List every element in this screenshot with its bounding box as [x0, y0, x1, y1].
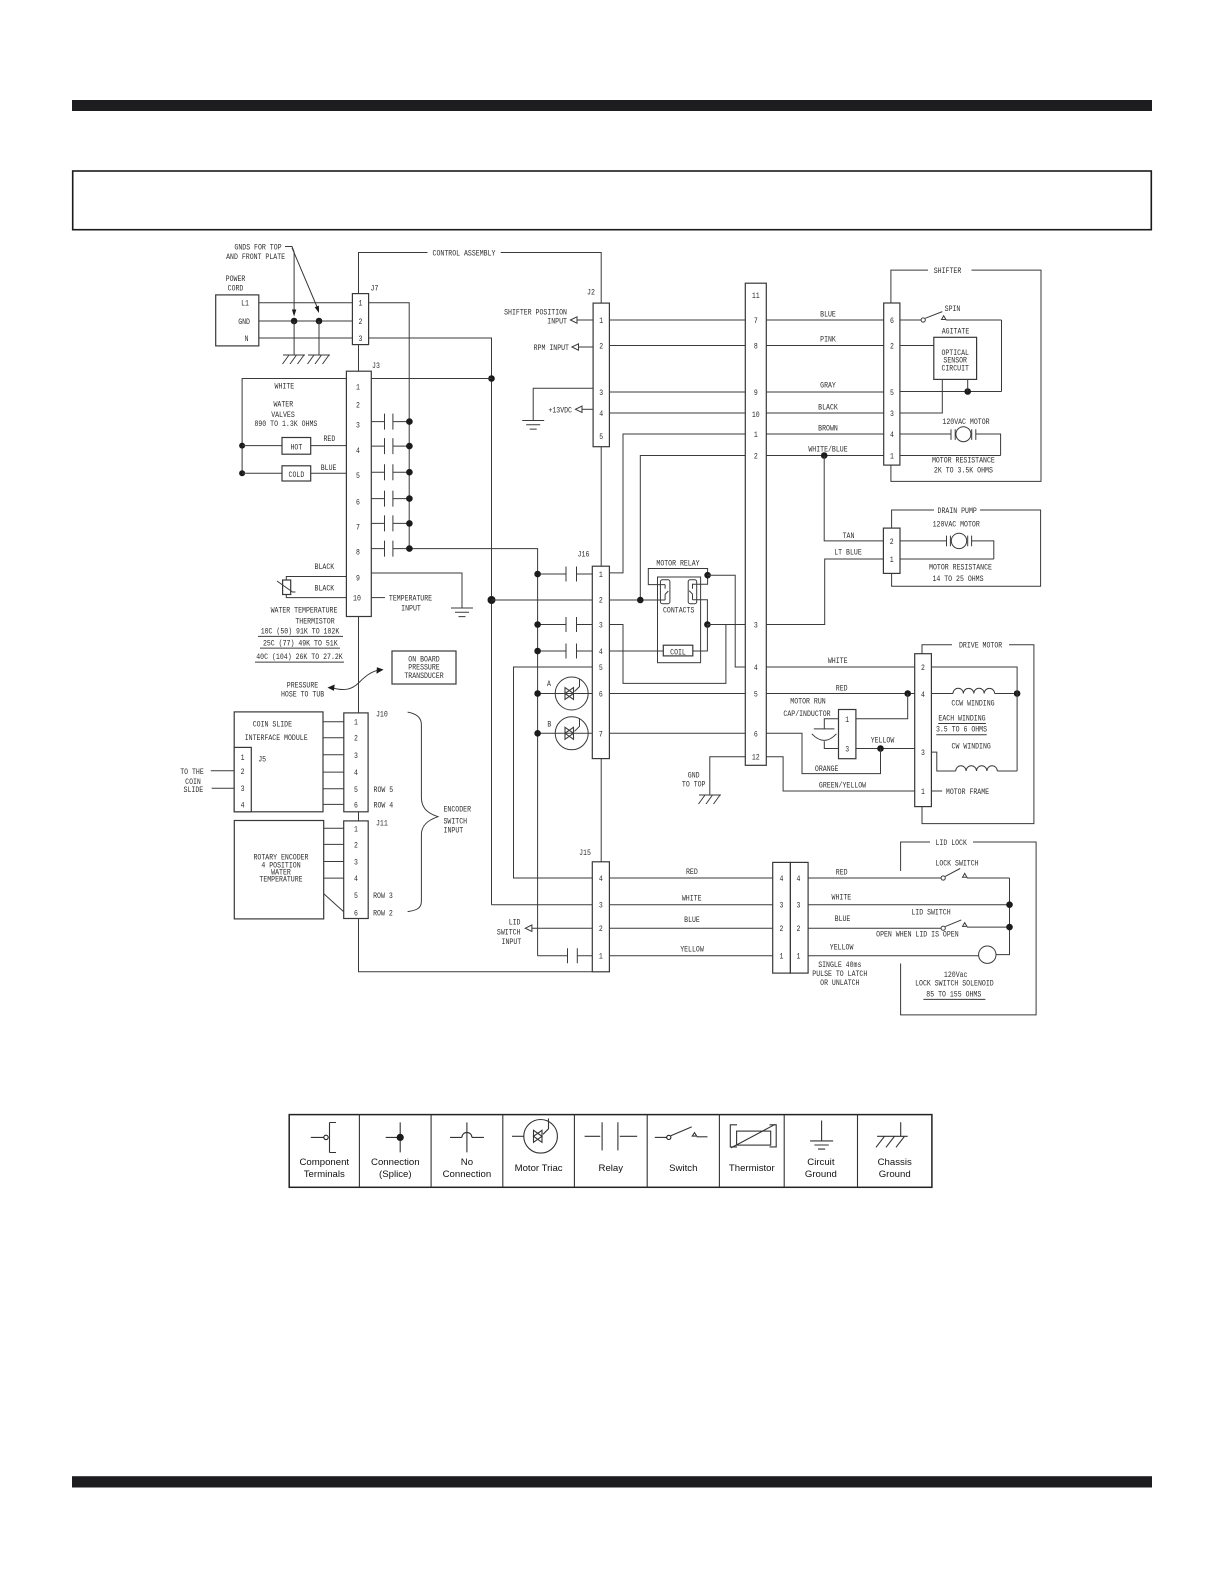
svg-text:WATER TEMPERATURE: WATER TEMPERATURE	[271, 606, 338, 616]
svg-text:INPUT: INPUT	[502, 937, 522, 947]
wire node to P1.3	[707, 624, 745, 626]
svg-text:EACH WINDING: EACH WINDING	[938, 714, 985, 724]
svg-text:COLD: COLD	[289, 470, 305, 480]
wire lid conn to lock switch red	[808, 877, 941, 879]
svg-text:CONTROL ASSEMBLY: CONTROL ASSEMBLY	[433, 249, 496, 259]
svg-text:SHIFTER: SHIFTER	[934, 266, 962, 276]
svg-text:4: 4	[599, 874, 603, 884]
svg-text:4: 4	[241, 800, 245, 810]
wire J3 pin1 white	[371, 378, 491, 380]
wire J7 pin1 to L1 bus	[369, 303, 410, 549]
node winding junction	[1014, 690, 1021, 697]
wire J3 pin9 to circuit ground	[371, 573, 462, 608]
svg-text:L1: L1	[241, 299, 249, 309]
svg-text:2: 2	[780, 924, 784, 934]
svg-text:2: 2	[890, 342, 894, 352]
gnd to top wire	[710, 757, 746, 795]
svg-text:OR UNLATCH: OR UNLATCH	[820, 978, 859, 988]
svg-text:LID SWITCH: LID SWITCH	[911, 908, 950, 918]
svg-text:BLUE: BLUE	[684, 915, 700, 925]
svg-text:ROW 3: ROW 3	[373, 891, 393, 901]
ccw winding	[931, 688, 1017, 693]
svg-text:Connection: Connection	[371, 1157, 420, 1168]
svg-text:3: 3	[356, 421, 360, 431]
svg-text:40C (104) 26K TO 27.2K: 40C (104) 26K TO 27.2K	[256, 652, 343, 662]
svg-text:Relay: Relay	[599, 1163, 624, 1174]
GNDS FOR TOP label with leaders	[226, 243, 319, 317]
wire J16.4 to coil	[609, 650, 663, 652]
svg-text:BROWN: BROWN	[818, 424, 838, 434]
svg-text:2: 2	[354, 840, 358, 850]
svg-text:4: 4	[890, 430, 894, 440]
drain pump enclosure	[892, 506, 1041, 586]
svg-text:3: 3	[599, 621, 603, 631]
drive motor enclosure	[922, 641, 1034, 824]
svg-text:6: 6	[356, 498, 360, 508]
svg-text:5: 5	[890, 388, 894, 398]
svg-text:CAP/INDUCTOR: CAP/INDUCTOR	[783, 709, 830, 719]
svg-text:COIL: COIL	[670, 648, 686, 658]
svg-text:3: 3	[845, 745, 849, 755]
rotary encoder box	[234, 821, 323, 919]
wire green/yellow P1.12 to drive.1	[766, 757, 914, 791]
wire P1.10 to shifter.3	[766, 412, 883, 414]
wire spin switch to pin5 line	[1001, 320, 1003, 392]
svg-text:TEMPERATURE: TEMPERATURE	[389, 594, 432, 604]
+13VDC annotation	[548, 405, 593, 415]
svg-text:(Splice): (Splice)	[379, 1169, 412, 1180]
connector J16	[578, 550, 610, 759]
circuit ground at J2 pin3	[522, 388, 593, 429]
svg-text:4: 4	[599, 647, 603, 657]
thermistor wire pin9	[286, 577, 346, 581]
svg-text:4: 4	[599, 409, 603, 419]
svg-text:GRAY: GRAY	[820, 381, 836, 391]
svg-text:RED: RED	[686, 867, 698, 877]
connector J11	[344, 819, 388, 919]
J3 pin3 component terminals	[371, 414, 412, 430]
connector P1	[745, 283, 766, 765]
svg-text:THERMISTOR: THERMISTOR	[295, 617, 334, 627]
svg-text:2: 2	[356, 401, 360, 411]
wire J7 pin3 to N bus	[369, 338, 492, 905]
wire shifter.2 to optical	[900, 345, 934, 347]
svg-text:HOSE TO TUB: HOSE TO TUB	[281, 690, 324, 700]
chassis ground (gnd to top)	[699, 795, 722, 804]
svg-text:YELLOW: YELLOW	[830, 943, 854, 953]
svg-text:12: 12	[752, 753, 760, 763]
svg-text:5: 5	[754, 690, 758, 700]
svg-text:Thermistor: Thermistor	[729, 1163, 776, 1174]
svg-text:6: 6	[754, 729, 758, 739]
svg-text:CCW WINDING: CCW WINDING	[951, 699, 994, 709]
svg-text:TO THE: TO THE	[180, 767, 204, 777]
bottom footer bar	[72, 1476, 1152, 1487]
svg-text:J2: J2	[587, 288, 595, 298]
legend component terminals symbol	[299, 1123, 349, 1180]
svg-text:WHITE: WHITE	[832, 893, 852, 903]
wire J16.6 to P1.5	[609, 693, 745, 695]
wire J16.5 to J15.4	[514, 667, 593, 878]
connector J10	[344, 710, 388, 812]
svg-text:GREEN/YELLOW: GREEN/YELLOW	[819, 781, 867, 791]
wire J16.2 to relay left contact	[609, 599, 665, 601]
wire J2.1 to P1.7 blue	[609, 319, 745, 321]
wire J16.7 to P1.6	[609, 732, 745, 734]
svg-text:INTERFACE MODULE: INTERFACE MODULE	[245, 733, 308, 743]
shifter connector	[884, 303, 900, 465]
svg-text:25C (77) 49K TO 51K: 25C (77) 49K TO 51K	[263, 639, 338, 649]
svg-text:1: 1	[356, 383, 360, 393]
svg-text:Switch: Switch	[669, 1163, 697, 1174]
temperature input label	[389, 594, 432, 614]
svg-text:3: 3	[359, 334, 363, 344]
lock switch solenoid	[979, 946, 996, 963]
wire lt blue drain pump.1 to P1.3	[766, 559, 883, 625]
svg-text:1: 1	[890, 555, 894, 565]
node N bus at J16.2	[488, 596, 496, 604]
motor frame stub	[931, 790, 942, 792]
legend relay symbol	[585, 1122, 638, 1174]
svg-text:MOTOR FRAME: MOTOR FRAME	[946, 787, 989, 797]
svg-text:BLACK: BLACK	[315, 562, 335, 572]
connector J7	[352, 284, 378, 345]
svg-text:J15: J15	[579, 848, 591, 858]
svg-text:4: 4	[354, 874, 358, 884]
svg-text:4: 4	[921, 690, 925, 700]
cw winding	[931, 752, 1017, 771]
svg-text:4: 4	[754, 663, 758, 673]
each winding label	[936, 714, 987, 735]
lid lock enclosure	[901, 838, 1037, 1015]
J16 pin3 component terminals	[534, 617, 592, 632]
single pulse label	[812, 960, 867, 988]
svg-text:10: 10	[353, 594, 361, 604]
svg-text:RED: RED	[836, 868, 848, 878]
svg-text:1: 1	[599, 570, 603, 580]
svg-text:4: 4	[356, 446, 360, 456]
svg-text:2K TO 3.5K OHMS: 2K TO 3.5K OHMS	[934, 466, 993, 476]
svg-text:7: 7	[356, 522, 360, 532]
legend motor triac symbol	[512, 1119, 563, 1174]
optical sensor circuit box	[934, 337, 977, 379]
svg-text:4: 4	[797, 874, 801, 884]
node tan tap on white/blue	[821, 452, 828, 459]
wire J15.3 to lid conn white	[609, 904, 772, 906]
drain pump connector	[883, 528, 900, 573]
svg-text:3: 3	[599, 388, 603, 398]
wire shifter.5	[900, 391, 1002, 393]
wire lid conn to solenoid yellow	[808, 955, 979, 957]
motor run cap labels	[783, 697, 830, 720]
control assembly boundary	[359, 249, 602, 972]
svg-text:1: 1	[599, 316, 603, 326]
splice node on GND wire	[316, 318, 323, 325]
svg-text:BLACK: BLACK	[818, 403, 838, 413]
svg-text:14 TO 25 OHMS: 14 TO 25 OHMS	[932, 574, 983, 584]
hot valve box	[282, 438, 311, 455]
encoder switch input brace	[408, 712, 471, 912]
svg-text:POWER: POWER	[226, 274, 246, 284]
drive motor connector	[915, 654, 932, 807]
water temperature thermistor	[277, 580, 296, 595]
svg-text:4: 4	[354, 768, 358, 778]
wire J16.3 under-route to P1.3	[609, 625, 726, 684]
node lid switch at lock vertical	[1006, 924, 1013, 931]
wire J15.4 to lid conn red	[609, 877, 772, 879]
drain pump motor	[900, 533, 994, 559]
svg-text:OPEN WHEN LID IS OPEN: OPEN WHEN LID IS OPEN	[876, 930, 959, 940]
svg-text:CW WINDING: CW WINDING	[952, 742, 991, 752]
svg-text:BLACK: BLACK	[315, 584, 335, 594]
svg-text:Connection: Connection	[443, 1169, 492, 1180]
empty title block box	[73, 171, 1152, 230]
J3 pin8 component terminals	[371, 541, 412, 557]
svg-text:RED: RED	[324, 434, 336, 444]
spin/agitate switch	[900, 304, 1002, 337]
svg-text:ROW 5: ROW 5	[374, 785, 394, 795]
svg-text:TRANSDUCER: TRANSDUCER	[404, 671, 443, 681]
svg-text:3.5 TO 6 OHMS: 3.5 TO 6 OHMS	[936, 725, 987, 735]
legend no connection symbol	[443, 1122, 492, 1179]
svg-text:9: 9	[754, 388, 758, 398]
wire J15.2 to lid conn blue	[609, 927, 772, 929]
svg-text:2: 2	[599, 924, 603, 934]
svg-text:ROW 2: ROW 2	[373, 909, 393, 919]
svg-text:Chassis: Chassis	[878, 1157, 912, 1168]
svg-text:MOTOR RELAY: MOTOR RELAY	[656, 559, 700, 569]
lid lock mating connector	[773, 862, 808, 973]
thermistor wire pin10	[286, 595, 346, 598]
svg-text:6: 6	[890, 316, 894, 326]
wire relay common to P1.4	[708, 575, 746, 667]
svg-text:WHITE: WHITE	[828, 656, 848, 666]
svg-text:2: 2	[354, 734, 358, 744]
svg-text:8: 8	[356, 548, 360, 558]
temperature input stub	[371, 597, 385, 599]
svg-text:1: 1	[780, 952, 784, 962]
wire drive.2 loop to winding junction	[931, 667, 1017, 771]
motor resistance label (pump)	[929, 563, 992, 585]
J3 pin5 component terminals	[371, 464, 412, 480]
svg-text:MOTOR RESISTANCE: MOTOR RESISTANCE	[929, 563, 992, 573]
shifter position input annotation	[504, 308, 593, 327]
wire GND to J7 pin2	[259, 320, 353, 322]
svg-text:120VAC MOTOR: 120VAC MOTOR	[933, 520, 980, 530]
chassis ground (right, front plate)	[308, 321, 331, 364]
lid switch input annotation	[497, 918, 592, 948]
wire L1 bus to J16 bus	[409, 549, 537, 956]
svg-text:WHITE: WHITE	[682, 894, 702, 904]
J15 pin1 component terminals	[538, 948, 593, 963]
legend switch symbol	[655, 1127, 708, 1174]
svg-text:1: 1	[845, 715, 849, 725]
svg-text:SPIN: SPIN	[945, 304, 961, 314]
svg-text:J11: J11	[376, 819, 388, 829]
svg-text:5: 5	[356, 471, 360, 481]
svg-text:3: 3	[241, 784, 245, 794]
svg-text:3: 3	[797, 901, 801, 911]
J16 pin1 component terminals	[534, 567, 592, 582]
wire P1.9 to shifter.5	[766, 391, 883, 393]
wire P1.7 to shifter.6	[766, 319, 883, 321]
svg-text:LOCK SWITCH SOLENOID: LOCK SWITCH SOLENOID	[915, 979, 994, 989]
svg-text:N: N	[245, 334, 249, 344]
wire P1.8 to shifter.2	[766, 345, 883, 347]
LEGEND	[289, 1115, 932, 1188]
svg-text:3: 3	[754, 621, 758, 631]
svg-text:7: 7	[754, 316, 758, 326]
on board pressure transducer box	[392, 651, 456, 684]
svg-text:2: 2	[599, 596, 603, 606]
svg-text:COIN SLIDE: COIN SLIDE	[253, 720, 292, 730]
svg-text:6: 6	[599, 690, 603, 700]
wire P1.1 to shifter.4 brown	[766, 433, 883, 435]
node relay common	[704, 572, 711, 579]
cold valve box	[282, 466, 311, 481]
svg-text:1: 1	[354, 824, 358, 834]
hot valve wires	[242, 445, 346, 447]
svg-text:2: 2	[599, 342, 603, 352]
motor resistance label (shifter)	[932, 456, 995, 476]
svg-text:6: 6	[354, 800, 358, 810]
svg-text:3: 3	[780, 901, 784, 911]
svg-text:RED: RED	[836, 684, 848, 694]
node white at lock vertical	[1006, 901, 1013, 908]
svg-text:Motor Triac: Motor Triac	[515, 1163, 563, 1174]
svg-text:1: 1	[754, 430, 758, 440]
svg-text:INPUT: INPUT	[401, 604, 421, 614]
svg-text:Ground: Ground	[879, 1169, 911, 1180]
cap/inductor connector	[839, 710, 856, 759]
wire brown P1.1 to J16.1	[609, 434, 745, 573]
svg-text:120VAC MOTOR: 120VAC MOTOR	[942, 417, 989, 427]
coin slide interface module	[234, 712, 323, 812]
svg-text:+13VDC: +13VDC	[548, 405, 572, 415]
svg-text:11: 11	[752, 291, 760, 301]
rpm input annotation	[534, 343, 594, 353]
svg-text:ENCODER: ENCODER	[444, 805, 472, 815]
power cord box	[216, 274, 259, 346]
lock switch vertical	[996, 878, 1010, 955]
legend chassis ground symbol	[876, 1122, 912, 1180]
node white/blue at relay wire	[637, 597, 644, 604]
svg-text:A: A	[547, 679, 551, 689]
cold valve wires	[242, 472, 346, 474]
svg-text:2: 2	[359, 317, 363, 327]
legend circuit ground symbol	[805, 1121, 837, 1180]
wire J2.3 to P1.9 gray	[609, 391, 745, 393]
node valve common cold	[239, 470, 245, 476]
svg-text:BLUE: BLUE	[321, 463, 337, 473]
svg-text:AGITATE: AGITATE	[942, 327, 970, 337]
wire lid conn to lid switch blue	[808, 927, 941, 929]
stub J5.3	[212, 787, 235, 789]
svg-text:1: 1	[921, 787, 925, 797]
wire J15.1 to lid conn yellow	[609, 955, 772, 957]
svg-text:ORANGE: ORANGE	[815, 764, 839, 774]
wire red node to cap.1	[856, 694, 908, 719]
svg-text:SLIDE: SLIDE	[184, 785, 204, 795]
svg-text:2: 2	[241, 767, 245, 777]
gnd to top label	[682, 771, 706, 790]
water valves caption	[254, 400, 317, 430]
lock switch	[941, 869, 1009, 881]
splice node on GND wire	[291, 318, 298, 325]
svg-text:LOCK SWITCH: LOCK SWITCH	[935, 859, 978, 869]
wire orange P1.6 to yellow node	[766, 733, 880, 773]
circuit ground (temperature input)	[451, 608, 473, 617]
svg-text:2: 2	[754, 452, 758, 462]
svg-text:PINK: PINK	[820, 335, 836, 345]
wires module to J10	[323, 722, 344, 805]
svg-text:5: 5	[599, 663, 603, 673]
wire lid conn white to node	[808, 904, 1009, 906]
J3 pin4 component terminals	[371, 438, 412, 454]
wire relay right contact to node	[693, 600, 708, 625]
svg-text:GND: GND	[238, 317, 250, 327]
svg-text:Circuit: Circuit	[807, 1157, 835, 1168]
wire tan to drain pump.2	[824, 456, 883, 541]
svg-text:DRIVE MOTOR: DRIVE MOTOR	[959, 641, 1002, 651]
triac A	[534, 677, 592, 710]
svg-text:INPUT: INPUT	[547, 317, 567, 327]
svg-text:2: 2	[797, 924, 801, 934]
svg-text:3: 3	[354, 751, 358, 761]
J3 pin6 component terminals	[371, 491, 412, 507]
svg-text:BLUE: BLUE	[820, 310, 836, 320]
svg-text:BLUE: BLUE	[835, 914, 851, 924]
svg-text:Terminals: Terminals	[304, 1169, 345, 1180]
node valve common hot	[239, 443, 245, 449]
svg-text:AND FRONT PLATE: AND FRONT PLATE	[226, 252, 285, 262]
svg-text:J7: J7	[371, 284, 379, 294]
svg-text:5: 5	[354, 785, 358, 795]
legend connection splice symbol	[371, 1122, 420, 1179]
svg-text:J10: J10	[376, 710, 388, 720]
svg-text:HOT: HOT	[291, 443, 303, 453]
J16 pin4 component terminals	[534, 644, 592, 659]
svg-text:B: B	[547, 720, 551, 730]
relay top bracket wire	[648, 569, 707, 585]
svg-text:8: 8	[754, 342, 758, 352]
svg-text:5: 5	[599, 432, 603, 442]
to the coin slide label	[180, 767, 204, 795]
svg-text:1: 1	[359, 299, 363, 309]
shifter enclosure	[891, 266, 1041, 482]
wire N to J7 pin3	[259, 337, 353, 339]
triac B	[534, 717, 592, 750]
svg-text:890 TO 1.3K OHMS: 890 TO 1.3K OHMS	[254, 419, 317, 429]
svg-text:TO TOP: TO TOP	[682, 780, 706, 790]
svg-text:3: 3	[599, 901, 603, 911]
motor run capacitor	[812, 719, 839, 749]
wire P1.4 to drive.2 white	[766, 666, 914, 668]
svg-text:No: No	[461, 1157, 473, 1168]
svg-text:J3: J3	[372, 361, 380, 371]
wire P1.2 to shifter.1 white/blue	[766, 455, 883, 457]
node optical output	[964, 388, 971, 395]
svg-text:10: 10	[752, 410, 760, 420]
wire water valve common	[242, 379, 346, 474]
connector J5	[234, 747, 266, 811]
svg-text:4: 4	[780, 874, 784, 884]
svg-text:INPUT: INPUT	[444, 826, 464, 836]
svg-text:Component: Component	[299, 1157, 349, 1168]
pressure hose label	[281, 681, 324, 700]
node red to cap	[904, 690, 911, 697]
svg-text:CORD: CORD	[228, 283, 244, 293]
